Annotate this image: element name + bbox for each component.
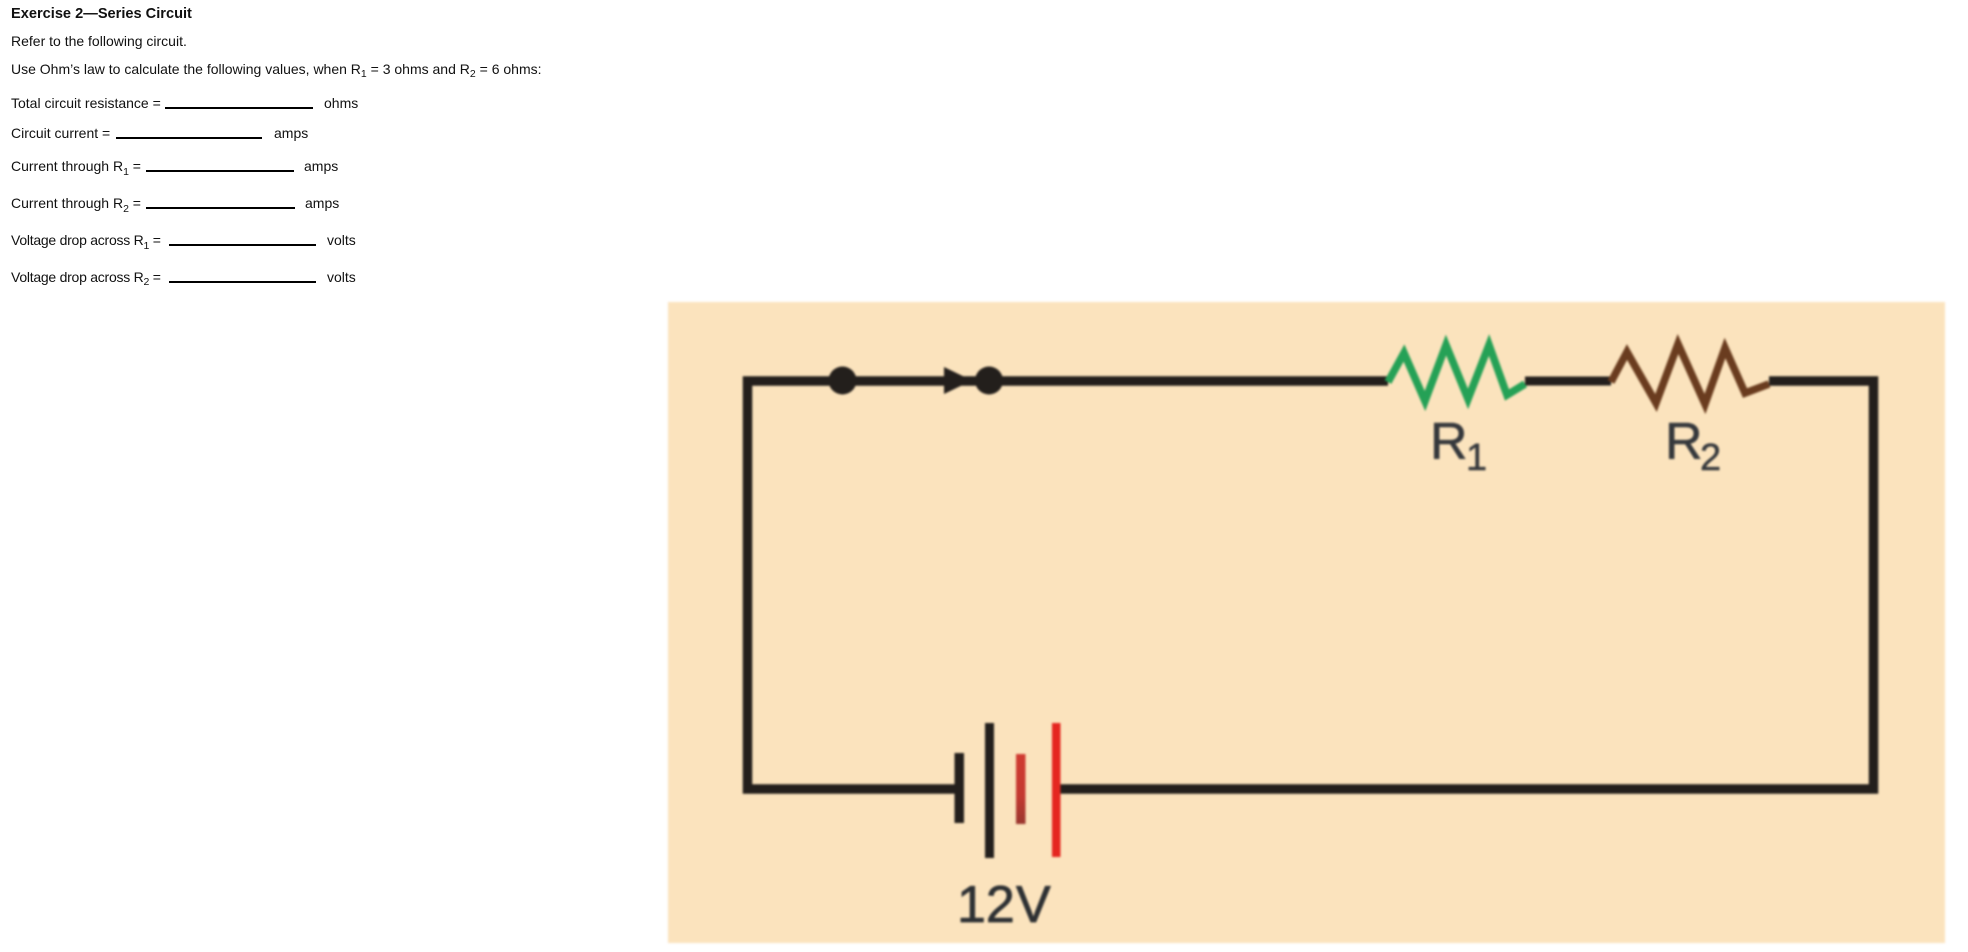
row 5: Voltage drop across R1: [11, 233, 161, 247]
peach background panel: [668, 302, 1945, 943]
svg-text:R: R: [1430, 413, 1468, 471]
svg-text:R: R: [1665, 413, 1703, 471]
node dot (junction 1): [829, 367, 857, 395]
wire: R2 to top-right corner, down right side, and bottom run to battery positive: [1060, 381, 1874, 789]
row 3: Current through R1: [11, 159, 141, 173]
current direction arrow: [944, 367, 972, 394]
resistor R2 (brown zigzag): [1611, 344, 1769, 404]
resistor R1 (green zigzag): [1388, 345, 1525, 401]
battery: short black plate (negative): [955, 753, 965, 823]
svg-text:1: 1: [1466, 437, 1487, 479]
node dot (junction 2): [975, 367, 1003, 395]
battery: long red plate (positive): [1052, 723, 1061, 857]
row 1: Total circuit resistance: [11, 96, 161, 110]
battery: long black plate: [985, 723, 994, 858]
paragraph: Refer to the following circuit.: [11, 34, 187, 48]
svg-text:2: 2: [1700, 437, 1721, 479]
row 6: Voltage drop across R2: [11, 270, 161, 284]
row 2: Circuit current: [11, 126, 110, 140]
wire: battery negative up left side and top run to R1: [748, 381, 1389, 789]
row 4: Current through R2: [11, 196, 141, 210]
wire: between R1 and R2: [1525, 377, 1611, 386]
title: Exercise 2—Series Circuit: [11, 7, 192, 22]
svg-text:12: 12: [957, 876, 1015, 934]
paragraph: Use Ohm's law ...: [11, 62, 542, 76]
svg-text:V: V: [1016, 876, 1051, 934]
